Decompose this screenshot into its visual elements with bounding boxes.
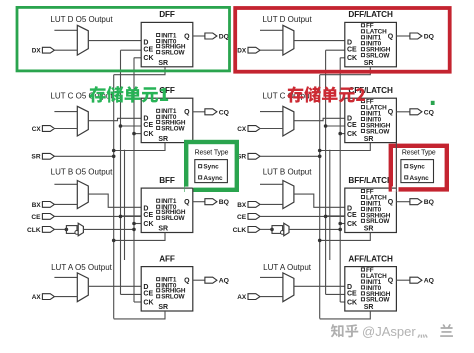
- mux MD2: [283, 25, 294, 55]
- output pin CQ2: [410, 109, 434, 117]
- wire mux to D 1: [88, 40, 141, 42]
- junction SR loop B1: [112, 239, 116, 243]
- wire DX to mux 1: [54, 49, 77, 51]
- wire LUT C O5 to mux 2: [260, 111, 283, 113]
- reset type selector 2: [401, 150, 436, 183]
- flip-flop CFF/LATCH: [345, 86, 397, 143]
- svg-text:SR: SR: [364, 60, 374, 67]
- junction CE 1: [119, 215, 123, 219]
- wire mux to D 2: [294, 194, 345, 207]
- wire CE branch D2: [326, 49, 345, 51]
- net LUT C output label 2: [262, 91, 312, 100]
- flip-flop CFF: [141, 86, 193, 143]
- svg-text:CK: CK: [143, 221, 153, 228]
- mux MC2: [283, 106, 294, 136]
- wire CLK to CK bus 2: [289, 228, 340, 230]
- wire mux to D 1: [88, 118, 141, 120]
- flip-flop BFF: [141, 176, 193, 233]
- wire SR bus 2: [319, 75, 321, 319]
- svg-text:CK: CK: [347, 299, 357, 306]
- svg-text:@JAsper: @JAsper: [362, 324, 416, 339]
- wire mux to D 2: [294, 118, 345, 120]
- wire CK branch B1: [134, 223, 141, 225]
- wire SR loop B1: [114, 233, 165, 241]
- wire CK branch D1: [134, 57, 141, 59]
- wire Q out D2: [396, 35, 410, 37]
- junction CE C2: [324, 124, 328, 128]
- svg-text:SR: SR: [31, 154, 40, 161]
- clock inverter mux 1: [65, 223, 84, 236]
- svg-text:DX: DX: [237, 48, 247, 55]
- net LUT A output label 1: [51, 263, 113, 272]
- wire CE bus 2: [325, 50, 327, 294]
- wire SR loop D2: [320, 67, 371, 75]
- wire mux to D 2: [294, 285, 345, 287]
- junction CE C1: [119, 124, 123, 128]
- svg-text:BQ: BQ: [424, 199, 434, 206]
- input pin CE1: [31, 214, 54, 221]
- wire CK branch A2: [340, 301, 345, 303]
- svg-text:DFF/LATCH: DFF/LATCH: [348, 10, 393, 19]
- svg-text:CK: CK: [143, 55, 153, 62]
- input pin AX2: [237, 294, 260, 301]
- svg-text:SR: SR: [158, 60, 168, 67]
- svg-text:CQ: CQ: [219, 109, 229, 116]
- green annotation box storage unit 1: [17, 7, 230, 71]
- input pin SR2: [237, 153, 260, 160]
- red annotation box storage unit 2: [235, 8, 450, 72]
- svg-text:CK: CK: [143, 299, 153, 306]
- junction CK C2: [338, 132, 342, 136]
- wire SR loop A1: [114, 311, 165, 319]
- wire CK branch C2: [340, 133, 345, 135]
- red reset type annotation box: [391, 146, 447, 190]
- output pin CQ1: [205, 109, 229, 117]
- wire SR in 1: [54, 155, 113, 157]
- wire CE branch A2: [326, 293, 345, 295]
- wire bus 1b: [124, 150, 126, 260]
- mux MB1: [77, 181, 88, 209]
- svg-text:Sync: Sync: [203, 164, 219, 171]
- wire Q out B1: [193, 201, 205, 203]
- svg-text:LUT B Output: LUT B Output: [263, 168, 313, 177]
- svg-text:SR: SR: [364, 304, 374, 311]
- svg-text:CE: CE: [347, 212, 357, 219]
- svg-text:SRLOW: SRLOW: [161, 125, 185, 132]
- wire CK branch D2: [340, 57, 345, 59]
- mux MA2: [283, 273, 294, 302]
- wire CK branch B2: [340, 223, 345, 225]
- svg-text:SRLOW: SRLOW: [161, 215, 185, 222]
- wire mux to D 1: [88, 194, 141, 207]
- wire CK branch A1: [134, 301, 141, 303]
- svg-text:Q: Q: [184, 199, 190, 206]
- wire SR bus 1: [113, 75, 115, 319]
- wire SR loop C2: [320, 143, 371, 151]
- wire CX to mux 1: [54, 128, 77, 130]
- svg-text:SR: SR: [158, 136, 168, 143]
- wire CLK to CK bus 1: [83, 228, 134, 230]
- net LUT A output label 2: [263, 263, 312, 272]
- svg-text:LUT A Output: LUT A Output: [263, 263, 312, 272]
- svg-text:BQ: BQ: [219, 199, 229, 206]
- annotation text storage unit 2: [287, 86, 365, 102]
- wire CLK in 1: [54, 228, 66, 230]
- wire CE branch C2: [326, 125, 345, 127]
- junction CLK 1: [132, 228, 136, 232]
- junction CK B2: [338, 222, 342, 226]
- svg-text:Async: Async: [203, 175, 223, 182]
- wire SR loop A2: [320, 311, 371, 319]
- svg-text:LUT D Output: LUT D Output: [262, 15, 312, 24]
- wire Q out A2: [396, 279, 410, 281]
- input pin AX1: [32, 294, 55, 301]
- svg-text:AFF: AFF: [159, 254, 175, 263]
- annotation text storage unit 1: [89, 86, 168, 103]
- svg-text:AX: AX: [32, 294, 42, 301]
- wire box link right: [395, 143, 397, 188]
- wire CK bus 1: [133, 58, 135, 302]
- wire CE in 1: [54, 215, 141, 217]
- svg-text:BX: BX: [32, 202, 42, 209]
- wire CE branch D1: [121, 49, 142, 51]
- svg-text:SRLOW: SRLOW: [366, 53, 390, 60]
- svg-text:Async: Async: [410, 175, 430, 182]
- svg-text:CE: CE: [347, 122, 357, 129]
- reset type selector 1: [195, 150, 229, 183]
- wire Q out D1: [193, 35, 205, 37]
- svg-text:CX: CX: [32, 126, 42, 133]
- flip-flop DFF/LATCH: [345, 10, 397, 67]
- svg-text:CE: CE: [237, 214, 247, 221]
- svg-text:SR: SR: [158, 304, 168, 311]
- wire CE branch A1: [121, 293, 142, 295]
- svg-text:CK: CK: [347, 221, 357, 228]
- watermark zhihu jasper: [331, 324, 453, 339]
- svg-text:AQ: AQ: [424, 278, 434, 285]
- svg-text:AFF/LATCH: AFF/LATCH: [348, 254, 393, 263]
- input pin BX1: [32, 202, 55, 209]
- input pin DX1: [32, 47, 55, 54]
- junction SR 1: [112, 155, 116, 159]
- output pin BQ1: [205, 199, 229, 207]
- wire CLK in 2: [260, 228, 272, 230]
- input pin CE2: [237, 214, 260, 221]
- wire Q out A1: [193, 279, 205, 281]
- junction SR loop C2: [318, 149, 322, 153]
- green reset type annotation box: [186, 142, 237, 190]
- input pin DX2: [237, 47, 260, 54]
- wire mux to D 2: [294, 40, 345, 42]
- wire CE bus 1: [120, 50, 122, 294]
- wire CE branch B1: [121, 215, 142, 217]
- svg-text:CE: CE: [143, 291, 153, 298]
- svg-text:CE: CE: [347, 46, 357, 53]
- svg-text:Reset Type: Reset Type: [402, 150, 436, 157]
- svg-text:AX: AX: [237, 294, 247, 301]
- svg-text:Q: Q: [388, 199, 394, 206]
- node green marker: [431, 101, 435, 105]
- junction SR loop C1: [112, 149, 116, 153]
- wire SR loop B2: [320, 233, 371, 241]
- net LUT C output label 1: [50, 91, 113, 100]
- wire AX to mux 1: [54, 296, 77, 298]
- flip-flop AFF/LATCH: [345, 254, 397, 311]
- mux MB2: [283, 181, 294, 209]
- wire Q out C1: [193, 111, 205, 113]
- svg-text:CE: CE: [143, 46, 153, 53]
- wire Q out B2: [396, 201, 410, 203]
- junction SR 2: [318, 155, 322, 159]
- svg-text:LUT B O5 Output: LUT B O5 Output: [51, 168, 113, 177]
- wire CE branch C1: [121, 125, 142, 127]
- svg-text:CE: CE: [31, 214, 41, 221]
- flip-flop AFF: [141, 254, 193, 311]
- junction CK B1: [132, 222, 136, 226]
- svg-text:SRLOW: SRLOW: [366, 218, 390, 225]
- wire SR loop D1: [114, 67, 165, 75]
- svg-text:CK: CK: [143, 131, 153, 138]
- flip-flop DFF: [141, 10, 193, 67]
- svg-text:SR: SR: [364, 226, 374, 233]
- node BFF/LATCH corner patch: [392, 143, 399, 192]
- net LUT B output label 1: [51, 168, 113, 177]
- flip-flop BFF/LATCH: [345, 176, 397, 233]
- svg-text:Q: Q: [388, 278, 394, 285]
- wire BX to mux 2: [260, 203, 283, 205]
- wire DX to mux 2: [260, 49, 283, 51]
- input pin SR1: [31, 153, 54, 160]
- clock inverter mux 2: [270, 223, 289, 236]
- svg-text:DQ: DQ: [424, 34, 434, 41]
- net LUT D output label 2: [262, 15, 312, 24]
- input pin BX2: [237, 202, 260, 209]
- svg-text:CE: CE: [347, 291, 357, 298]
- junction SR loop B2: [318, 239, 322, 243]
- svg-text:LUT A O5 Output: LUT A O5 Output: [51, 263, 113, 272]
- svg-text:CK: CK: [347, 131, 357, 138]
- svg-text:CLK: CLK: [233, 227, 247, 234]
- wire LUT B O5 to mux 1: [54, 183, 77, 185]
- wire CX to mux 2: [260, 128, 283, 130]
- svg-text:SR: SR: [364, 136, 374, 143]
- node BFF corner patch: [185, 187, 194, 192]
- svg-text:BFF: BFF: [159, 176, 175, 185]
- svg-text:SRLOW: SRLOW: [161, 50, 185, 57]
- wire mux to D 1: [88, 285, 141, 287]
- wire CE branch B2: [326, 215, 345, 217]
- output pin AQ1: [205, 277, 229, 285]
- wire CK bus 2: [339, 58, 341, 302]
- svg-text:AQ: AQ: [219, 278, 229, 285]
- svg-text:Reset Type: Reset Type: [195, 150, 229, 157]
- wire LUT A O5 to mux 2: [260, 276, 283, 278]
- wire LUT B O5 to mux 2: [260, 183, 283, 185]
- junction CK C1: [132, 132, 136, 136]
- input pin CLK2: [233, 227, 260, 234]
- svg-text:Sync: Sync: [410, 164, 426, 171]
- junction CE 2: [324, 215, 328, 219]
- wire LUT D O5 to mux 1: [54, 29, 77, 31]
- svg-text:CQ: CQ: [424, 109, 434, 116]
- svg-text:DFF: DFF: [159, 10, 175, 19]
- output pin AQ2: [410, 277, 434, 285]
- wire AX to mux 2: [260, 296, 283, 298]
- svg-text:LUT D O5 Output: LUT D O5 Output: [50, 15, 113, 24]
- wire CE in 2: [260, 215, 345, 217]
- svg-text:SR: SR: [158, 226, 168, 233]
- svg-text:CX: CX: [237, 126, 247, 133]
- output pin DQ1: [205, 33, 229, 41]
- wire SR loop C1: [114, 143, 165, 151]
- svg-text:Q: Q: [388, 109, 394, 116]
- mux MA1: [77, 273, 88, 302]
- net LUT D output label 1: [50, 15, 113, 24]
- mux MC1: [77, 106, 88, 136]
- svg-text:BFF/LATCH: BFF/LATCH: [348, 176, 393, 185]
- svg-text:BX: BX: [237, 202, 247, 209]
- input pin CX1: [32, 126, 55, 133]
- svg-text:DX: DX: [32, 48, 42, 55]
- wire LUT D O5 to mux 2: [260, 29, 283, 31]
- input pin CLK1: [27, 227, 54, 234]
- svg-text:SRLOW: SRLOW: [366, 128, 390, 135]
- output pin BQ2: [410, 199, 434, 207]
- svg-text:Q: Q: [184, 109, 190, 116]
- svg-text:CFF/LATCH: CFF/LATCH: [348, 86, 393, 95]
- wire SR in 2: [260, 155, 320, 157]
- svg-text:CK: CK: [347, 55, 357, 62]
- wire Q out C2: [396, 111, 410, 113]
- svg-text:SRLOW: SRLOW: [161, 294, 185, 301]
- svg-text:Q: Q: [184, 33, 190, 40]
- svg-text:Q: Q: [388, 33, 394, 40]
- svg-text:CLK: CLK: [27, 227, 41, 234]
- wire CK branch C1: [134, 133, 141, 135]
- svg-text:SRLOW: SRLOW: [366, 297, 390, 304]
- wire LUT A O5 to mux 1: [54, 276, 77, 278]
- mux MD1: [77, 25, 88, 55]
- svg-text:CE: CE: [143, 212, 153, 219]
- wire LUT C O5 to mux 1: [54, 111, 77, 113]
- output pin DQ2: [410, 33, 434, 41]
- svg-text:CE: CE: [143, 122, 153, 129]
- svg-text:DQ: DQ: [219, 34, 229, 41]
- wire BX to mux 1: [54, 203, 77, 205]
- wire bus 2b: [329, 150, 331, 260]
- junction CLK 2: [338, 228, 342, 232]
- net LUT B output label 2: [263, 168, 313, 177]
- input pin CX2: [237, 126, 260, 133]
- svg-text:Q: Q: [184, 278, 190, 285]
